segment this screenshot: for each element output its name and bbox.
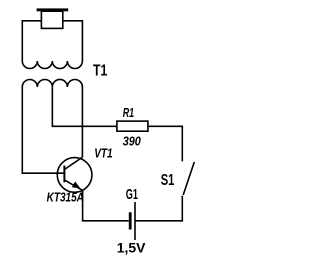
svg-text:1,5V: 1,5V bbox=[117, 239, 146, 255]
svg-text:S1: S1 bbox=[161, 172, 175, 189]
svg-text:G1: G1 bbox=[126, 186, 138, 203]
svg-text:KT315A: KT315A bbox=[47, 191, 84, 205]
svg-text:R1: R1 bbox=[123, 106, 134, 120]
svg-text:VT1: VT1 bbox=[94, 147, 112, 161]
svg-text:T1: T1 bbox=[93, 63, 107, 80]
svg-text:390: 390 bbox=[123, 133, 142, 148]
